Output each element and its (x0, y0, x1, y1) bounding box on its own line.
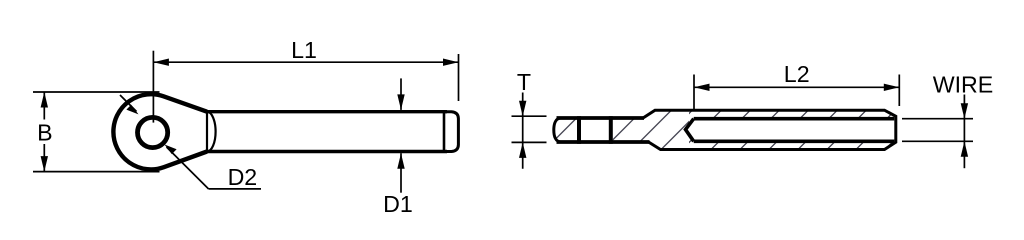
dimension B: dimension line upper segment (43, 92, 45, 120)
shank top edge (207, 110, 447, 113)
shank end cap (445, 112, 458, 152)
dimension B: bottom extension line (33, 171, 160, 173)
bore outline (686, 119, 895, 142)
dimension D1: lower arrowhead (397, 153, 404, 169)
dimension T: vertical arrow line (522, 93, 524, 169)
dimension B: lower arrowhead (41, 156, 48, 172)
dimension T: lower arrowhead (points up to bottom line) (519, 142, 526, 158)
dimension L1: left extension line (through eye to hole center) (152, 51, 154, 123)
dimension D1: upper arrow line (400, 78, 402, 110)
dimension L1: left arrowhead (153, 59, 169, 66)
bore cavity (white) (686, 119, 895, 142)
shank end inner line (443, 110, 446, 153)
dimension D1: upper arrowhead (397, 94, 404, 110)
dimension D2: upper leader arrowhead (126, 105, 138, 115)
dimension T: upper arrowhead (points down to top line) (519, 101, 526, 117)
eye hole left edge (577, 116, 581, 144)
dimension B: top extension line (33, 91, 160, 93)
dimension D2: lower leader arrowhead (165, 145, 177, 155)
dimension WIRE: lower arrowhead (points up to bottom line) (961, 141, 968, 157)
eye hole cavity (white) (577, 116, 613, 144)
dimension D1: lower arrow line (400, 153, 402, 193)
dimension D2: lower leader line (167, 147, 209, 189)
plate region white underlay (554, 110, 689, 149)
dimension L2: dimension line (694, 86, 899, 88)
svg-text:D1: D1 (383, 191, 413, 217)
dimension L2: left extension line (693, 75, 695, 110)
shank bottom edge (207, 150, 447, 153)
dimension T: bottom extension line (512, 141, 547, 143)
dimension L2: right extension line (898, 75, 900, 107)
dimension B: dimension line lower segment (43, 144, 45, 172)
dimension L2: left arrowhead (694, 84, 710, 91)
svg-text:L1: L1 (291, 37, 317, 63)
dimension WIRE: top extension line (902, 118, 973, 120)
taper transition arc (207, 112, 216, 152)
svg-text:B: B (37, 120, 52, 146)
dimension D2: horizontal leader underline (209, 188, 262, 190)
eye hole (138, 117, 168, 147)
dimension WIRE: vertical arrow line (963, 95, 965, 169)
dimension WIRE: bottom extension line (902, 140, 973, 142)
svg-text:L2: L2 (784, 61, 810, 87)
section outline (554, 110, 896, 149)
dimension L1: right extension line (458, 54, 460, 101)
taper end vertical line (206, 112, 208, 152)
eye hole right edge (609, 116, 613, 144)
dimension L1: right arrowhead (443, 59, 459, 66)
plate top edge (thick) (557, 116, 645, 120)
section body hatched fill (554, 110, 896, 149)
svg-text:D2: D2 (228, 164, 258, 190)
svg-text:T: T (517, 69, 531, 95)
eye outline with taper to shank (113, 94, 207, 169)
dimension B: upper arrowhead (41, 92, 48, 108)
dimension T: top extension line (512, 115, 547, 117)
dimension WIRE: upper arrowhead (points down to top line) (961, 103, 968, 119)
dimension L2: right arrowhead (884, 84, 900, 91)
svg-text:WIRE: WIRE (933, 71, 994, 97)
dimension L1: dimension line (153, 61, 458, 63)
plate region hatched fill (phase B) (554, 110, 689, 149)
dimension D2: upper leader line (120, 95, 137, 112)
plate bottom edge (thick) (557, 140, 650, 144)
